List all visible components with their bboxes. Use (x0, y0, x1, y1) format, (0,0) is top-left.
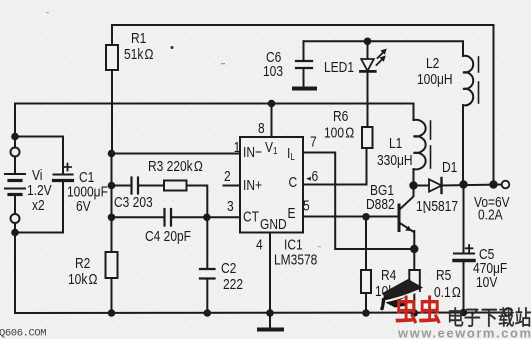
battery Vi cells (5, 173, 25, 175)
LED1 (367, 41, 369, 59)
node pin8 junction (268, 100, 276, 108)
node R4 bottom (362, 309, 370, 317)
pin number labels (224, 120, 318, 253)
svg-text:LED1: LED1 (324, 59, 354, 76)
IC IC1 LM3578 box (240, 137, 303, 233)
transistor Q1 BG1 D882 (398, 205, 401, 231)
scan speck dots (171, 46, 174, 49)
node L1/D1/collector junction (409, 181, 417, 189)
node output top junction (489, 180, 497, 188)
wire: pin7 IL to current sense (303, 153, 414, 250)
svg-text:100Ω: 100Ω (324, 124, 354, 141)
node D1 cathode / C5 top (459, 180, 467, 188)
svg-text:E: E (288, 205, 296, 222)
svg-text:D1: D1 (442, 159, 457, 176)
svg-text:L2: L2 (426, 55, 439, 72)
svg-text:4: 4 (256, 236, 263, 253)
svg-text:330μH: 330μH (377, 152, 413, 169)
svg-text:R3 220kΩ: R3 220kΩ (148, 158, 203, 175)
svg-text:R2: R2 (75, 255, 90, 272)
svg-text:Q606.COM: Q606.COM (0, 328, 46, 339)
svg-text:6V: 6V (76, 198, 91, 215)
battery Vi terminal circle top (11, 148, 20, 157)
svg-text:C4 20pF: C4 20pF (145, 228, 191, 245)
node CT junction (203, 214, 211, 222)
resistor R4 (365, 217, 367, 270)
node pin2 line left junction (108, 182, 116, 190)
svg-text:GND: GND (260, 216, 287, 233)
svg-text:IN−: IN− (243, 144, 262, 161)
L2 core dashes (478, 57, 480, 72)
capacitor C3 (112, 185, 132, 187)
svg-text:51kΩ: 51kΩ (124, 46, 154, 63)
svg-text:1N5817: 1N5817 (416, 198, 458, 215)
svg-text:10V: 10V (476, 274, 497, 291)
svg-text:7: 7 (310, 133, 317, 150)
svg-text:CT: CT (243, 208, 259, 225)
wire: pin8 V1 lead (271, 104, 273, 138)
LED1 light arrows (377, 49, 387, 66)
svg-text:3: 3 (227, 198, 234, 215)
svg-text:www.eeworm.com: www.eeworm.com (397, 326, 531, 339)
wire: left column battery branch (14, 104, 16, 148)
output terminal circle + (502, 181, 510, 189)
inductor L1 (414, 120, 426, 170)
svg-text:C2: C2 (221, 260, 236, 277)
inductor L2 (463, 56, 473, 106)
node base/R4 junction (362, 213, 370, 221)
watermark graduation cap (380, 279, 423, 310)
svg-text:R6: R6 (333, 108, 348, 125)
node battery- junction (11, 229, 19, 237)
wire: pin6 C to R6 (303, 184, 367, 186)
node C5 bottom (460, 309, 468, 317)
resistor R2 (111, 154, 113, 253)
resistor R6 (362, 127, 373, 148)
resistor R5 (409, 270, 420, 291)
svg-text:103: 103 (263, 63, 283, 80)
node pin3 line left junction (108, 214, 116, 222)
L1 core dashes (430, 121, 432, 139)
ground below C6 (294, 87, 315, 91)
svg-text:5: 5 (303, 197, 310, 214)
watermark 虫虫 red (396, 296, 418, 324)
capacitor C2 (206, 217, 208, 269)
svg-text:L1: L1 (389, 135, 402, 152)
svg-text:IN+: IN+ (243, 177, 262, 194)
svg-text:100μH: 100μH (417, 71, 453, 88)
svg-text:R4: R4 (381, 267, 397, 284)
svg-text:LM3578: LM3578 (274, 251, 317, 268)
wire: pin1 IN- wire (112, 153, 241, 155)
IC internal labels (243, 139, 317, 268)
node LED top junction (364, 38, 372, 46)
svg-text:x2: x2 (32, 197, 45, 214)
svg-text:C: C (288, 174, 297, 191)
battery Vi terminal circle bottom (11, 214, 20, 223)
svg-text:10kΩ: 10kΩ (68, 271, 98, 288)
svg-text:D882: D882 (366, 196, 395, 213)
capacitor C5 (463, 185, 465, 254)
node battery+ junction (11, 133, 19, 141)
svg-text:R5: R5 (436, 267, 451, 284)
wire: bottom ground rail (15, 312, 504, 315)
node emitter/R5 junction (410, 245, 418, 253)
resistor R3 (164, 181, 187, 191)
svg-text:0.2A: 0.2A (478, 206, 504, 223)
capacitor C4 (112, 216, 164, 218)
svg-text:0.1Ω: 0.1Ω (434, 284, 461, 301)
capacitor C1 (15, 137, 63, 175)
svg-text:2: 2 (224, 168, 231, 185)
pin6 arrow mark (306, 177, 311, 181)
wire: battery positive rail y=103.5 (15, 104, 414, 121)
svg-text:R1: R1 (131, 30, 146, 47)
node pin4 bottom junction (266, 309, 274, 317)
node C2 bottom (204, 309, 212, 317)
svg-text:C3 203: C3 203 (114, 194, 153, 211)
svg-text:8: 8 (258, 120, 265, 137)
svg-text:222: 222 (223, 276, 243, 293)
output terminal circle - (504, 308, 512, 316)
watermark 电子下载站 (449, 307, 463, 326)
diode D1 1N5817 (414, 185, 430, 187)
capacitor C6 (303, 41, 305, 61)
wire: pin2 stub (224, 185, 241, 187)
wire: pin4 GND lead (269, 233, 271, 328)
wire: LED/L2 top rail y=41 (304, 41, 464, 56)
node R2 bottom (108, 309, 116, 317)
svg-text:1: 1 (234, 139, 241, 156)
wire: pin5 E to base (303, 216, 399, 218)
node R5 bottom (411, 309, 419, 317)
svg-text:6: 6 (312, 168, 319, 185)
resistor R1 (111, 25, 113, 45)
wire: top feedback rail from R1 top to output right side (112, 25, 494, 185)
ground symbol below IC (259, 328, 282, 332)
node R1 bottom junction (108, 150, 116, 158)
